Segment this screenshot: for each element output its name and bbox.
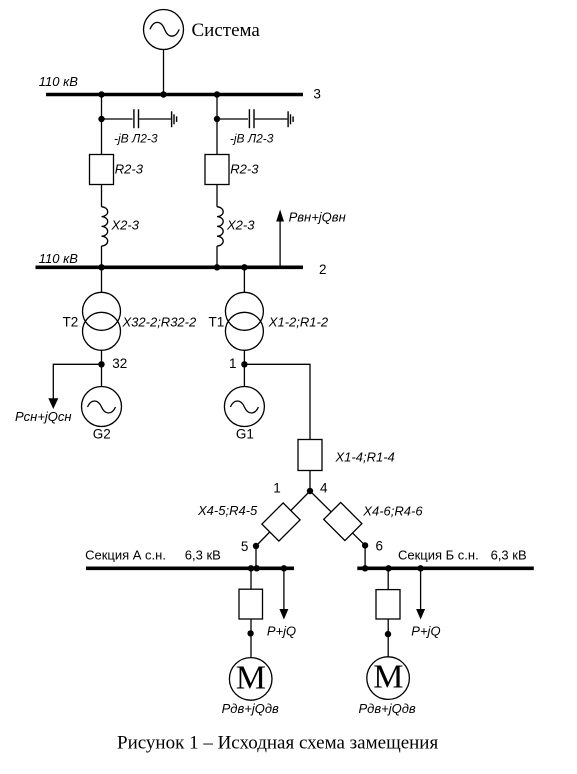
- wire T2 to G2: [101, 350, 103, 387]
- arrow Pвн+jQвн: [276, 210, 284, 267]
- wire node 1 to X1-4: [244, 364, 310, 439]
- wire bus B to breaker: [387, 568, 389, 589]
- svg-text:1: 1: [273, 481, 281, 496]
- junction bus B / breaker: [385, 565, 391, 571]
- resistor X1-4: [298, 440, 322, 471]
- junction bus A / load arrow: [281, 565, 287, 571]
- svg-text:T2: T2: [63, 314, 79, 329]
- capacitor -jB Л2-3 (right): [249, 109, 254, 128]
- generator G2: [82, 387, 122, 427]
- node 4 junction: [307, 488, 313, 494]
- wire node 4 to node 6 (diagonal): [310, 491, 365, 545]
- svg-text:4: 4: [320, 481, 328, 496]
- wire node 6 to bus B: [364, 545, 366, 568]
- wire bus2 to T1: [243, 267, 245, 293]
- svg-text:Секция А с.н.: Секция А с.н.: [85, 548, 166, 563]
- wire to capacitor (left): [102, 118, 133, 120]
- inductor X2-3 (right): [217, 207, 223, 246]
- junction bus B / node6 wire: [362, 565, 368, 571]
- svg-text:X1-4;R1-4: X1-4;R1-4: [335, 449, 395, 464]
- junction capacitor tap (right): [214, 116, 220, 122]
- svg-text:R2-3: R2-3: [230, 162, 259, 177]
- wire breaker to motor (right): [387, 619, 389, 657]
- svg-text:32: 32: [112, 356, 127, 371]
- resistor R2-3 (right): [205, 155, 229, 185]
- junction bus2 / T1: [241, 264, 247, 270]
- node 5 junction: [253, 543, 259, 549]
- svg-text:X1-2;R1-2: X1-2;R1-2: [268, 314, 329, 329]
- arrow Pсн+jQсн: [48, 398, 58, 409]
- svg-text:R2-3: R2-3: [115, 162, 144, 177]
- wire bus3 to R2-3 (left): [101, 95, 103, 155]
- junction bus2 / T2: [98, 264, 104, 270]
- generator G1: [224, 387, 264, 427]
- svg-text:Pсн+jQсн: Pсн+jQсн: [15, 409, 72, 424]
- svg-text:X2-3: X2-3: [111, 218, 140, 233]
- resistor R2-3 (left): [90, 155, 114, 185]
- motor M (right): [367, 657, 410, 700]
- svg-text:-jB Л2-3: -jB Л2-3: [230, 131, 274, 145]
- wire breaker to motor (left): [250, 619, 252, 658]
- wire to capacitor (right): [217, 118, 248, 120]
- svg-text:Pдв+jQдв: Pдв+jQдв: [359, 701, 416, 716]
- inductor X2-3 (left): [102, 207, 108, 246]
- wire node 4 to node 5 (diagonal): [256, 491, 310, 546]
- svg-text:3: 3: [313, 87, 321, 102]
- wire bus2 to T2: [101, 267, 103, 293]
- svg-text:T1: T1: [209, 314, 225, 329]
- bus 3 (110 kV): [46, 93, 303, 97]
- wire X1-4 to node 4: [309, 471, 311, 492]
- svg-text:110 кВ: 110 кВ: [39, 74, 78, 89]
- wire X2-3 to bus2 (left): [101, 246, 103, 266]
- svg-text:Система: Система: [192, 20, 261, 41]
- ground (left): [172, 111, 177, 127]
- svg-text:X4-6;R4-6: X4-6;R4-6: [362, 503, 423, 518]
- wire system to bus 3: [163, 50, 165, 94]
- svg-text:6,3 кВ: 6,3 кВ: [491, 548, 527, 563]
- resistor X4-6 (rotated): [324, 502, 362, 540]
- svg-text:2: 2: [319, 262, 327, 277]
- wire node 5 to bus A: [255, 546, 257, 568]
- junction dot above motor (right): [385, 631, 391, 637]
- svg-text:-jB Л2-3: -jB Л2-3: [114, 131, 158, 145]
- node 1 junction: [241, 361, 247, 367]
- node 32 junction: [98, 361, 104, 367]
- arrow P+jQ (left): [279, 568, 288, 619]
- arrow P+jQ (right): [416, 568, 425, 619]
- junction capacitor tap (left): [98, 116, 104, 122]
- wire bus A to breaker: [250, 568, 252, 589]
- junction bus2 / line2: [214, 264, 220, 270]
- resistor X4-5 (rotated): [262, 503, 300, 541]
- svg-text:Pдв+jQдв: Pдв+jQдв: [222, 701, 279, 716]
- breaker box (right): [376, 590, 400, 619]
- wire bus3 to R2-3 (right): [216, 95, 218, 155]
- svg-text:X2-3: X2-3: [226, 218, 255, 233]
- transformer T2: [83, 292, 121, 350]
- svg-text:1: 1: [229, 356, 237, 371]
- svg-text:X32-2;R32-2: X32-2;R32-2: [122, 314, 197, 329]
- svg-text:110 кВ: 110 кВ: [39, 251, 78, 266]
- transformer T1: [225, 292, 263, 350]
- ground (right): [288, 111, 293, 127]
- bus section B: [357, 566, 534, 570]
- svg-text:M: M: [236, 659, 266, 696]
- bus section A: [86, 566, 294, 570]
- wire capacitor to ground (right): [255, 118, 288, 120]
- svg-text:X4-5;R4-5: X4-5;R4-5: [197, 503, 258, 518]
- svg-text:6: 6: [376, 539, 384, 554]
- wire node 32 to load arrow: [53, 364, 101, 400]
- junction dot above motor (left): [247, 630, 253, 636]
- wire X2-3 to bus2 (right): [216, 246, 218, 266]
- svg-text:Рисунок 1 – Исходная схема зам: Рисунок 1 – Исходная схема замещения: [117, 733, 438, 754]
- svg-text:M: M: [373, 659, 403, 696]
- wire R2-3 to X2-3 (left): [101, 185, 103, 207]
- svg-text:6,3 кВ: 6,3 кВ: [185, 548, 221, 563]
- junction bus A / breaker: [248, 565, 254, 571]
- svg-text:Секция Б с.н.: Секция Б с.н.: [398, 548, 479, 563]
- junction bus3 / line1: [98, 91, 104, 97]
- svg-text:G2: G2: [93, 426, 111, 441]
- breaker box (left): [239, 589, 263, 619]
- generator symbol Система: [144, 10, 184, 50]
- svg-text:P+jQ: P+jQ: [267, 624, 296, 639]
- bus 2 (110 kV): [36, 265, 304, 269]
- node 6 junction: [362, 542, 368, 548]
- svg-text:5: 5: [241, 539, 249, 554]
- junction bus3 / line2: [214, 91, 220, 97]
- svg-text:P+jQ: P+jQ: [411, 624, 440, 639]
- wire capacitor to ground (left): [139, 118, 171, 120]
- wire T1 to G1: [243, 350, 245, 387]
- svg-text:G1: G1: [236, 426, 254, 441]
- wire R2-3 to X2-3 (right): [216, 185, 218, 207]
- capacitor -jB Л2-3 (left): [134, 109, 139, 128]
- svg-text:Pвн+jQвн: Pвн+jQвн: [289, 210, 346, 225]
- junction bus3 / system: [160, 91, 166, 97]
- junction bus A / node5 wire: [254, 565, 260, 571]
- junction bus B / load arrow: [417, 565, 423, 571]
- motor M (left): [229, 658, 272, 701]
